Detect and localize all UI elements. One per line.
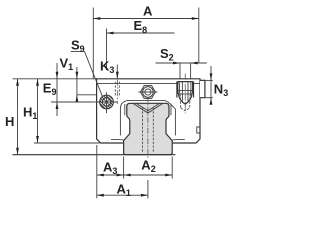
dimension H1 bbox=[37, 79, 39, 143]
dimension K3 (leader arrow) bbox=[116, 65, 118, 79]
dimension V1 bbox=[76, 67, 78, 101]
threaded hole below insert (dashes) bbox=[180, 98, 182, 108]
dimension S2 bbox=[179, 63, 181, 79]
screw counterbore bbox=[176, 81, 178, 97]
lube port (left hole): hatched ring bbox=[100, 95, 114, 109]
dimension E8 bbox=[106, 29, 108, 71]
insert internal bore bbox=[181, 82, 183, 103]
lube port crosshairs bbox=[95, 101, 118, 103]
rail bottom / mounting surface line bbox=[13, 154, 176, 156]
hidden threaded hole K3 (dashes) bbox=[114, 82, 116, 97]
top surface reference line bbox=[13, 78, 97, 80]
body side step line (V1 reference) bbox=[77, 94, 97, 96]
lube port boss (right side) bbox=[200, 80, 205, 97]
plug inner circle bbox=[145, 89, 151, 95]
runner block body outline bbox=[97, 79, 200, 143]
svg-text:A: A bbox=[143, 3, 153, 18]
rail ball-track hidden lines bbox=[142, 108, 144, 153]
cavity gap lines along rail head sides bbox=[124, 104, 126, 115]
rail cross-section (grey) bbox=[124, 103, 173, 154]
body cavity outline around rail bbox=[120, 100, 175, 135]
rail centerline bbox=[147, 86, 149, 158]
plug outer circle bbox=[143, 87, 154, 98]
dimension A1 bbox=[97, 194, 148, 196]
lube port inner cross bbox=[104, 99, 110, 105]
bottom extension lines bbox=[96, 145, 98, 198]
dimension N3 bbox=[200, 79, 213, 81]
dimension A2 bbox=[124, 174, 173, 176]
rail top V-groove (outer) bbox=[133, 104, 162, 114]
body inner top line bbox=[97, 82, 200, 84]
dimension A3 bbox=[97, 174, 124, 176]
insert cross lines bbox=[177, 90, 193, 92]
dimension H bbox=[17, 79, 19, 155]
rail top V-groove (inner) bbox=[137, 104, 160, 111]
dimension E9 bbox=[56, 63, 58, 116]
reference groove (right edge) bbox=[197, 127, 200, 133]
screw centerline bbox=[184, 74, 186, 114]
insert flank curves bbox=[179, 83, 191, 97]
dimension A bbox=[92, 8, 94, 79]
plug crosshair bbox=[138, 91, 157, 93]
body bottom inner step lines bbox=[111, 139, 124, 142]
threaded insert outline with dome bottom bbox=[178, 82, 193, 105]
svg-text:H: H bbox=[5, 114, 14, 129]
top center lube plug: hexagon bbox=[140, 86, 155, 99]
